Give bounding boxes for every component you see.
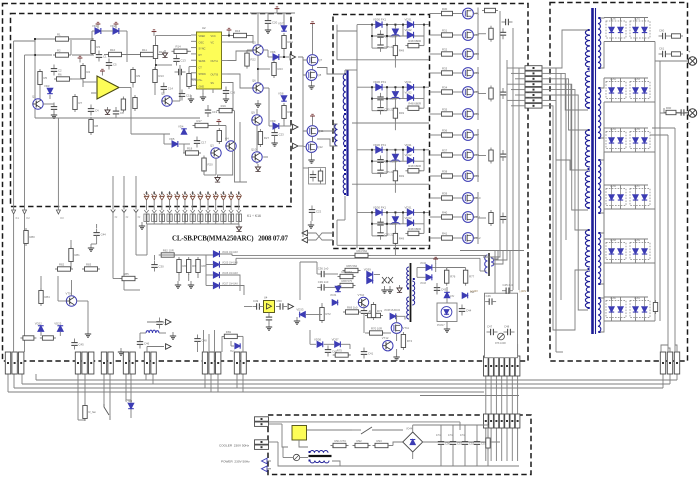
wire (214, 330, 216, 352)
wire (131, 133, 170, 135)
T3 tap (407, 288, 409, 290)
svg-text:VD38 MUR160: VD38 MUR160 (384, 309, 401, 312)
wire (130, 374, 132, 418)
resistor pair (167, 214, 169, 222)
wire (306, 314, 322, 316)
wire (152, 374, 154, 384)
transistor (382, 336, 393, 351)
wire (473, 72, 478, 74)
wire (24, 208, 26, 210)
ground (88, 244, 94, 251)
LED HL2 (462, 293, 467, 299)
T1 secondary winding (598, 233, 601, 284)
zener VDZ4 (391, 217, 401, 225)
wire (436, 267, 447, 269)
resistor (365, 309, 383, 318)
ground (200, 93, 206, 100)
transistor (358, 293, 369, 308)
capacitor (276, 299, 287, 310)
wire (25, 54, 36, 56)
svg-text:C48: C48 (504, 325, 510, 329)
resistor (353, 249, 371, 258)
wire (644, 18, 646, 22)
diode (213, 261, 219, 267)
svg-text:R39: R39 (442, 191, 448, 195)
wire (495, 376, 497, 414)
svg-text:R7: R7 (79, 101, 83, 105)
power MOSFET VT11 (463, 212, 481, 223)
wire (517, 376, 519, 414)
wire (176, 222, 178, 225)
wire (455, 237, 463, 239)
capacitor C3 (51, 103, 57, 114)
svg-text:VD23: VD23 (54, 322, 61, 326)
wire (311, 81, 313, 84)
resistor (343, 264, 361, 273)
svg-text:R33: R33 (442, 66, 448, 70)
wire (515, 94, 517, 96)
wire (635, 149, 637, 153)
wire (336, 25, 338, 60)
wire (601, 209, 605, 284)
opto LED K2 (151, 194, 157, 200)
wire (230, 222, 232, 225)
resistor R9 (131, 67, 141, 85)
ground (236, 224, 241, 232)
transistor Q4 (225, 136, 236, 151)
wire (675, 345, 677, 352)
svg-text:R91 NTC: R91 NTC (335, 439, 347, 443)
node (371, 211, 373, 213)
wire (244, 306, 252, 308)
node (169, 192, 171, 194)
wire (14, 40, 35, 42)
wire (119, 30, 127, 32)
svg-text:R37: R37 (442, 148, 448, 152)
rectifier diode block VD56 (606, 185, 626, 206)
wire (317, 139, 338, 146)
svg-text:R13: R13 (159, 74, 165, 78)
optocoupler U5 (437, 303, 457, 327)
T5 dot (309, 460, 311, 462)
wire (611, 128, 613, 132)
resistor R9c (133, 95, 137, 111)
wire (386, 150, 388, 174)
wire (455, 134, 463, 136)
wire (282, 447, 284, 458)
wire (372, 35, 424, 37)
wire (247, 49, 253, 51)
wire (303, 167, 309, 169)
svg-text:VD43: VD43 (420, 282, 427, 285)
T2 tap (344, 145, 346, 147)
inter-board connector X11 (525, 66, 542, 108)
signal arrow (166, 344, 171, 350)
capacitor C15 (179, 90, 192, 101)
wire (423, 25, 425, 46)
wire (430, 197, 440, 199)
T2 winding (343, 74, 346, 110)
capacitor C2 (51, 65, 62, 76)
svg-text:Q4: Q4 (225, 136, 229, 140)
node (161, 192, 163, 194)
wire (161, 191, 163, 195)
group resistor (489, 148, 493, 164)
wire (447, 267, 466, 269)
resistor pair (236, 214, 238, 222)
resistor (177, 257, 188, 275)
svg-text:K1 ÷ K16: K1 ÷ K16 (247, 214, 261, 218)
wire (283, 49, 285, 58)
wire (328, 286, 338, 288)
wire (478, 217, 486, 219)
T5 winding bottom (310, 461, 329, 463)
wire (179, 65, 181, 101)
wire (230, 200, 232, 210)
pin chevron (111, 210, 116, 213)
wire (430, 113, 440, 115)
wire (620, 297, 622, 301)
resistor (405, 39, 421, 48)
svg-text:IN+: IN+ (199, 79, 204, 82)
svg-text:(+)24V: (+)24V (470, 289, 478, 293)
wire (228, 51, 253, 61)
node (371, 86, 373, 88)
wire (230, 341, 232, 346)
switch S1 (104, 404, 109, 415)
resistor R25 (282, 103, 293, 121)
wire (242, 374, 244, 392)
svg-text:PC817: PC817 (437, 324, 445, 327)
wire (188, 274, 190, 281)
wire (484, 254, 487, 256)
wire (662, 351, 664, 353)
wire (494, 250, 496, 293)
outer main board boundary (3, 4, 529, 362)
resistor (371, 302, 382, 320)
wire (300, 457, 308, 459)
wire (464, 425, 466, 438)
wire (611, 297, 613, 301)
svg-text:K3: K3 (60, 216, 64, 220)
wire (172, 100, 180, 102)
capacitor C16 (223, 87, 236, 98)
gate resistor (439, 85, 455, 94)
pin chevron (122, 210, 127, 213)
wire (418, 45, 424, 47)
svg-text:R49: R49 (399, 49, 405, 53)
capacitor C21 (310, 171, 316, 182)
wire (256, 125, 258, 152)
svg-text:COOLER 230V 50Hz: COOLER 230V 50Hz (219, 444, 250, 448)
capacitor (438, 438, 451, 449)
wire (135, 176, 137, 210)
wire (669, 374, 671, 384)
wire (154, 84, 156, 95)
capacitor C13 (173, 55, 186, 66)
gate resistor (439, 210, 455, 219)
transistor Q5 (252, 40, 263, 55)
diode VD33 (373, 80, 387, 90)
svg-text:VD31: VD31 (405, 80, 412, 84)
wire (283, 119, 285, 126)
svg-text:C30: C30 (159, 265, 165, 269)
svg-text:R23: R23 (278, 67, 284, 71)
resistor pair (175, 214, 177, 222)
wire (506, 428, 508, 461)
wire (420, 395, 519, 397)
T2 tap (344, 73, 346, 75)
node (146, 192, 148, 194)
pin arrow (183, 210, 187, 213)
VD1 tick (96, 22, 101, 28)
wire (77, 300, 89, 302)
wire (84, 374, 86, 404)
wire (436, 283, 438, 294)
aux transformer T3 core (410, 263, 412, 322)
svg-text:SENS: SENS (199, 60, 206, 63)
node (200, 192, 202, 194)
wire (34, 39, 36, 118)
wire (24, 55, 26, 208)
wire (231, 345, 234, 347)
svg-text:SHDN: SHDN (199, 73, 206, 76)
wire (71, 280, 73, 296)
svg-text:VD22: VD22 (35, 322, 42, 326)
wire (130, 88, 132, 119)
wire (485, 428, 487, 461)
wire (620, 38, 622, 42)
svg-text:VD32: VD32 (405, 153, 412, 157)
T1 tap (599, 212, 601, 214)
diode (367, 278, 373, 284)
resistor (331, 439, 349, 448)
resistor (159, 248, 177, 257)
wire (303, 60, 306, 75)
wire (352, 183, 429, 185)
wire (13, 208, 15, 210)
wire (604, 320, 655, 322)
wire (635, 99, 637, 103)
wire (620, 260, 622, 264)
wire (337, 219, 345, 221)
svg-text:R14: R14 (176, 45, 182, 49)
wire (215, 222, 217, 225)
wire (43, 103, 54, 105)
svg-text:R11: R11 (142, 48, 147, 52)
wire (413, 424, 441, 426)
capacitor C20 (265, 17, 278, 28)
group capacitor (500, 213, 506, 224)
LED HL1 (235, 343, 240, 348)
wire (217, 374, 219, 392)
connector X6 (202, 352, 221, 374)
svg-text:Q10: Q10 (251, 147, 257, 151)
group source-drain chain (477, 8, 479, 61)
svg-text:C41: C41 (368, 352, 374, 356)
wire (635, 78, 637, 82)
svg-text:VT11: VT11 (403, 326, 410, 330)
rectifier diode block VD51 (630, 18, 650, 39)
ground (223, 95, 229, 102)
resistor (69, 246, 80, 264)
power MOSFET VT3 (463, 49, 480, 60)
wire (220, 275, 240, 291)
resistor R5 (38, 69, 48, 87)
svg-text:VD32: VD32 (405, 28, 412, 32)
svg-text:R77: R77 (469, 275, 475, 279)
power MOSFET VT2 (463, 30, 480, 41)
svg-text:R69: R69 (226, 330, 232, 334)
ground (139, 222, 145, 229)
resistor (338, 270, 356, 279)
trimmer R78 (495, 333, 506, 345)
wire (620, 99, 622, 103)
pin arrow K2 (23, 210, 27, 214)
svg-text:VT9: VT9 (66, 291, 72, 295)
T2 winding (343, 174, 346, 194)
wire (423, 441, 500, 443)
wire (136, 254, 147, 256)
resistor R18 (183, 146, 201, 155)
wire (207, 222, 209, 225)
wire (352, 122, 429, 124)
resistor (222, 330, 240, 339)
wire (430, 134, 440, 136)
zener VD3 (44, 84, 53, 94)
resistor pair (213, 214, 215, 222)
wire (551, 90, 588, 230)
resistor (463, 268, 474, 286)
wire (283, 457, 293, 459)
svg-text:R25: R25 (288, 110, 294, 114)
wire (206, 285, 213, 287)
T1 tap (599, 283, 601, 285)
resistor (353, 439, 371, 448)
bus wire (499, 11, 501, 250)
svg-text:C44: C44 (466, 309, 472, 313)
wire (601, 42, 605, 69)
svg-text:R48 680R: R48 680R (408, 39, 421, 43)
resistor (373, 439, 391, 448)
wire (661, 345, 668, 352)
svg-text:Q2: Q2 (161, 91, 165, 95)
wire (601, 263, 605, 332)
wire (250, 12, 295, 14)
wire (332, 461, 340, 466)
wire (394, 87, 396, 91)
capacitor C17b (194, 137, 207, 148)
wire (480, 270, 487, 272)
resistor R24 (282, 33, 293, 51)
pin arrow (160, 210, 164, 213)
diode VD36 (373, 143, 387, 153)
wire (372, 223, 424, 225)
T1 tap (588, 268, 590, 270)
op-amp input wire (83, 81, 97, 83)
wire (268, 312, 270, 315)
node (155, 64, 157, 66)
wire (232, 254, 484, 256)
svg-text:OUT B: OUT B (211, 74, 219, 77)
wire (197, 346, 199, 353)
wire (202, 89, 204, 94)
resistor R9b (121, 97, 125, 113)
group source-drain chain (477, 67, 479, 120)
wire (386, 212, 388, 236)
bus wire (560, 73, 562, 300)
pin chevron (134, 210, 139, 213)
resistor R16 (231, 29, 249, 38)
op-amp out wire (119, 87, 131, 89)
wire (215, 200, 217, 210)
svg-text:R30: R30 (442, 7, 448, 11)
wire (423, 87, 425, 108)
svg-text:U4: U4 (264, 296, 268, 300)
resistor (653, 300, 657, 314)
capacitor (93, 229, 106, 240)
wire (140, 332, 146, 334)
wire (620, 128, 622, 132)
svg-text:R49: R49 (399, 111, 405, 115)
wire (430, 72, 440, 74)
diode VD2 (110, 24, 119, 34)
capacitor C1 (96, 51, 107, 62)
transistor Q2 (161, 91, 172, 106)
svg-text:C39 1n0: C39 1n0 (318, 280, 329, 284)
wire (363, 305, 365, 307)
wire (316, 262, 318, 274)
node (386, 223, 388, 225)
wire (267, 50, 269, 57)
wire (473, 216, 478, 218)
ground (170, 332, 176, 339)
svg-text:VCC: VCC (211, 35, 216, 38)
T1 tap (599, 297, 601, 299)
T1 secondary winding (598, 18, 601, 68)
wire (611, 206, 613, 210)
svg-text:R20: R20 (208, 163, 214, 167)
wire (635, 318, 637, 322)
svg-text:C48: C48 (202, 339, 208, 343)
U1 pin stubs right (222, 35, 228, 37)
capacitor (377, 166, 397, 177)
output terminal minus (688, 109, 697, 125)
T2 tap (344, 109, 346, 111)
wire (279, 56, 289, 58)
svg-text:VD30 PX1: VD30 PX1 (373, 143, 387, 147)
svg-text:VT10: VT10 (358, 293, 365, 297)
gate resistor (439, 7, 455, 16)
wire (635, 18, 637, 22)
wire (228, 74, 253, 88)
wire (300, 261, 317, 263)
wire (372, 160, 424, 162)
signal arrow (166, 319, 171, 325)
zener VDZ1 (391, 29, 401, 37)
U1 pin stubs left (191, 34, 197, 36)
wire (644, 128, 646, 132)
pin arrow (214, 210, 218, 213)
opto LED K5 (174, 194, 180, 200)
group source-drain chain (477, 129, 479, 182)
bus wire (512, 28, 514, 255)
node (192, 192, 194, 194)
svg-text:Q6: Q6 (252, 78, 256, 82)
wire (473, 34, 478, 36)
resistor pair (182, 214, 184, 222)
diode VD41 (405, 216, 414, 226)
